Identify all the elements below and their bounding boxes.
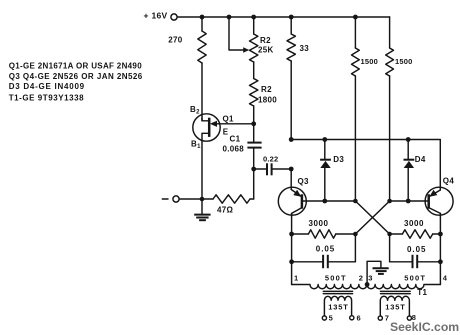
svg-text:500T: 500T: [404, 273, 426, 282]
terminal 7: [378, 313, 389, 322]
svg-text:+ 16V: + 16V: [144, 11, 168, 21]
svg-text:1500: 1500: [395, 57, 413, 66]
transformer secondary 135T (right): [380, 296, 409, 316]
wire cross diagonal A-D: [355, 201, 389, 234]
node junction C: [353, 232, 358, 237]
svg-text:0.05: 0.05: [316, 245, 335, 254]
node rail/270: [200, 15, 205, 20]
svg-text:0.068: 0.068: [223, 145, 245, 154]
node B1/47ohm/minus/ground: [200, 197, 205, 202]
wire emitter rail to Q4: [291, 140, 440, 191]
resistor 1500 (right): [386, 17, 413, 201]
resistor 33: [287, 17, 309, 140]
wire +16V rail: [177, 16, 389, 18]
capacitor C1 0.068: [223, 124, 262, 169]
svg-text:5: 5: [329, 314, 333, 323]
svg-text:25K: 25K: [258, 46, 274, 55]
terminal minus: [162, 196, 202, 202]
terminal 5: [322, 314, 333, 323]
node rail/wiper: [227, 15, 232, 20]
wire Q3 base line: [307, 200, 356, 202]
wire 1800 to emitter node: [253, 106, 255, 124]
terminal 8: [407, 313, 416, 322]
transistor Q1 (UJT 2N1671A): [190, 105, 254, 150]
resistor R2 1800: [250, 79, 278, 107]
svg-text:135T: 135T: [328, 303, 348, 312]
svg-text:Q3: Q3: [298, 177, 310, 186]
svg-text:R2: R2: [261, 85, 272, 94]
svg-text:500T: 500T: [325, 273, 347, 282]
svg-text:Q1: Q1: [223, 115, 235, 124]
node junction B (1500R/base line): [387, 199, 392, 204]
wire Q4 collector down: [439, 213, 441, 284]
transformer core left: [323, 291, 352, 293]
node rail/1500: [353, 15, 358, 20]
notes parts list: [9, 61, 143, 102]
wire 47ohm up to 0.22 node: [253, 169, 255, 199]
svg-text:3000: 3000: [404, 219, 424, 228]
svg-text:SeekIC.com: SeekIC.com: [390, 320, 459, 334]
svg-text:7: 7: [385, 313, 389, 322]
node 33/emitter rail: [289, 137, 294, 142]
svg-text:1: 1: [294, 273, 298, 282]
transistor Q4 (2N526 PNP): [425, 177, 454, 217]
node D3 top: [322, 137, 327, 142]
potentiometer wiper wire with arrow: [229, 17, 249, 53]
resistor 3000 (left): [292, 219, 356, 238]
wire junction C stub: [354, 234, 356, 262]
svg-text:R2: R2: [260, 36, 271, 45]
diode D4: [404, 140, 426, 202]
svg-text:0.22: 0.22: [263, 155, 278, 164]
node D4/base: [406, 199, 411, 204]
resistor 1500 (left): [352, 17, 379, 201]
wire 25K to 1800: [253, 62, 255, 79]
transformer secondary 135T (left): [324, 296, 351, 316]
node 0.05R right: [438, 259, 443, 264]
svg-text:Q3 Q4-GE 2N526 OR JAN 2N526: Q3 Q4-GE 2N526 OR JAN 2N526: [9, 72, 143, 81]
svg-text:3000: 3000: [309, 219, 329, 228]
wire Q3 emitter: [291, 169, 302, 197]
wire center tap to ground: [367, 261, 381, 284]
svg-text:Q1-GE 2N1671A OR USAF 2N490: Q1-GE 2N1671A OR USAF 2N490: [9, 61, 143, 70]
transformer core right: [381, 291, 411, 293]
wire Q3 collector down: [291, 213, 293, 284]
resistor 270: [168, 17, 206, 63]
transistor Q3 (2N526 PNP): [278, 177, 309, 216]
svg-text:270: 270: [168, 36, 182, 45]
svg-text:1500: 1500: [361, 57, 379, 66]
node junction A (1500L/base line): [353, 199, 358, 204]
capacitor 0.22: [254, 155, 292, 176]
transformer T1 primary winding 500T/500T: [292, 285, 441, 289]
node D4 top: [406, 137, 411, 142]
node Q1 emitter / C1: [251, 121, 256, 126]
resistor R2 25K: [250, 17, 274, 62]
svg-text:47Ω: 47Ω: [217, 206, 233, 215]
node rail/R2-25K: [251, 15, 256, 20]
svg-text:Q4: Q4: [443, 177, 455, 186]
wire 270 to Q1 B2: [201, 63, 203, 121]
terminal 6: [350, 313, 361, 322]
svg-text:2: 2: [359, 273, 363, 282]
node junction D: [387, 232, 392, 237]
wire Q1 B1 down: [201, 141, 203, 199]
node rail/33: [289, 15, 294, 20]
svg-text:T1-GE 9T93Y1338: T1-GE 9T93Y1338: [9, 93, 84, 102]
resistor 3000 (right): [390, 219, 441, 238]
capacitor 0.05 (left): [292, 245, 356, 269]
wire Q4 emitter: [429, 190, 441, 197]
ground (left): [194, 199, 210, 220]
svg-text:6: 6: [357, 313, 361, 322]
diode D3: [320, 140, 344, 202]
wire Q4 base line: [390, 200, 429, 202]
svg-text:0.05: 0.05: [407, 245, 426, 254]
svg-text:33: 33: [300, 44, 310, 53]
node primary center tap: [365, 282, 370, 287]
svg-text:4: 4: [443, 274, 448, 283]
svg-text:E: E: [223, 128, 229, 137]
node 0.22/Q3 emitter: [289, 167, 294, 172]
node 3000R right: [438, 232, 443, 237]
ground (center tap): [373, 268, 389, 274]
resistor 47 ohm: [202, 195, 254, 215]
svg-text:D4: D4: [415, 155, 426, 164]
wire junction D stub: [389, 234, 391, 262]
node 0.05L left: [289, 259, 294, 264]
svg-text:3: 3: [368, 273, 372, 282]
capacitor 0.05 (right): [390, 245, 441, 268]
node D3/base: [322, 199, 327, 204]
node C1/0.22/47ohm: [251, 167, 256, 172]
terminal +16V: [144, 11, 178, 21]
svg-text:T1: T1: [417, 288, 427, 297]
svg-text:C1: C1: [230, 135, 241, 144]
wire cross diagonal B-C: [355, 201, 389, 234]
svg-text:D3: D3: [333, 155, 344, 164]
svg-text:1800: 1800: [258, 96, 277, 105]
node 3000L left: [289, 232, 294, 237]
svg-text:D3 D4-GE IN4009: D3 D4-GE IN4009: [9, 82, 85, 91]
svg-text:135T: 135T: [385, 303, 405, 312]
